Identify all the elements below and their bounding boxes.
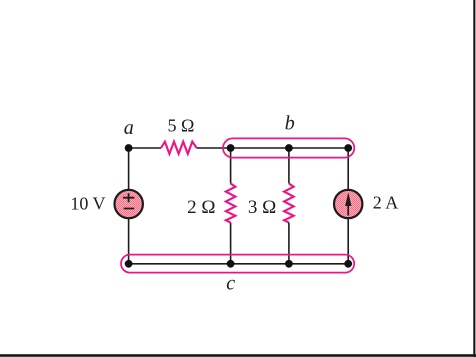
wire 2ohm rail upper bbox=[230, 148, 232, 184]
resistor R2 2ohm bbox=[226, 184, 236, 223]
wire 3ohm rail upper bbox=[288, 148, 290, 184]
svg-text:3 Ω: 3 Ω bbox=[248, 197, 276, 218]
wire left rail lower bbox=[128, 219, 130, 264]
svg-text:b: b bbox=[285, 113, 295, 135]
svg-text:c: c bbox=[226, 273, 235, 295]
svg-text:5 Ω: 5 Ω bbox=[168, 116, 195, 136]
svg-text:2 A: 2 A bbox=[373, 193, 399, 213]
svg-text:2 Ω: 2 Ω bbox=[187, 197, 215, 218]
resistor R1 5ohm bbox=[161, 142, 197, 154]
figure border right edge bbox=[473, 0, 475, 357]
junction dot top right bbox=[344, 144, 352, 152]
junction dot bottom 3ohm bbox=[285, 260, 293, 268]
svg-text:10 V: 10 V bbox=[70, 194, 105, 214]
node b loop capsule bbox=[223, 138, 354, 157]
svg-text:a: a bbox=[124, 117, 134, 139]
junction dot top 2ohm bbox=[227, 144, 235, 152]
wire right rail lower bbox=[347, 219, 349, 264]
wire 3ohm rail lower bbox=[288, 223, 290, 264]
junction dot bottom right bbox=[344, 260, 352, 268]
current source I1 2A bbox=[334, 190, 362, 218]
wire left rail upper bbox=[128, 148, 130, 190]
wire bottom rail bbox=[129, 263, 349, 265]
resistor R3 3ohm bbox=[284, 184, 294, 223]
node c loop capsule bbox=[121, 255, 354, 273]
arrow of current source bbox=[347, 204, 349, 216]
wire right rail upper bbox=[347, 148, 349, 190]
wire top from node a to right rail bbox=[128, 147, 348, 149]
wire 2ohm rail lower bbox=[230, 223, 232, 264]
junction dot bottom left bbox=[125, 260, 133, 268]
junction dot node a bbox=[125, 144, 133, 152]
junction dot top 3ohm bbox=[285, 144, 293, 152]
figure border bottom edge bbox=[0, 354, 476, 357]
junction dot bottom 2ohm bbox=[227, 260, 235, 268]
voltage source V1 10V bbox=[115, 190, 143, 218]
